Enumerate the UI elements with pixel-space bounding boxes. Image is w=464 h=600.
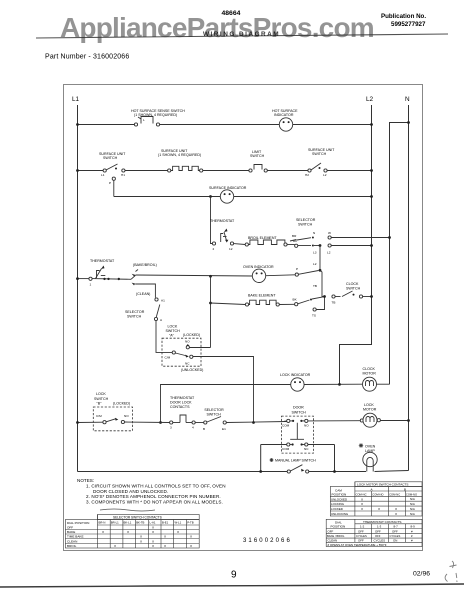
svg-text:TB: TB	[332, 301, 336, 305]
svg-text:BK-L1: BK-L1	[124, 521, 132, 525]
svg-text:A: A	[160, 318, 163, 322]
svg-text:"A": "A"	[169, 334, 175, 338]
switch hot surface sense switch	[134, 117, 159, 127]
svg-text:TS: TS	[312, 314, 316, 318]
svg-text:SWITCH: SWITCH	[94, 397, 109, 401]
wire row2	[78, 170, 372, 172]
svg-text:SELECTOR: SELECTOR	[125, 310, 145, 314]
relay lock switch A dashed box	[162, 338, 201, 366]
svg-text:A1: A1	[161, 299, 165, 303]
svg-text:CONTACTS: CONTACTS	[170, 405, 190, 409]
svg-text:NC: NC	[304, 447, 309, 451]
switch selector row L3-L1	[298, 244, 372, 247]
svg-text:# OPENS AT OVEN TEMPERATURE +: # OPENS AT OVEN TEMPERATURE + 550°F	[328, 543, 387, 547]
switch selector P contact	[295, 271, 318, 277]
junction L2 row1	[370, 123, 373, 126]
svg-text:(1 SHOWN, 4 REQUIRED): (1 SHOWN, 4 REQUIRED)	[158, 153, 201, 157]
svg-text:(1 SHOWN, 4 REQUIRED): (1 SHOWN, 4 REQUIRED)	[134, 113, 177, 117]
svg-text:X: X	[152, 540, 154, 544]
svg-text:OFF: OFF	[358, 529, 364, 533]
svg-text:4: 4	[192, 426, 194, 430]
wire row3 thermostat	[78, 275, 296, 280]
svg-text:BR-N: BR-N	[99, 521, 106, 525]
svg-text:12: 12	[229, 247, 233, 251]
svg-text:1-3: 1-3	[377, 525, 382, 529]
svg-text:A: A	[371, 487, 374, 491]
header underline rule	[36, 34, 448, 38]
svg-text:SWITCH: SWITCH	[292, 411, 307, 415]
svg-text:(BAKE/BROIL): (BAKE/BROIL)	[133, 263, 157, 267]
node L2 bus	[340, 105, 372, 385]
svg-text:L2: L2	[366, 96, 374, 103]
junction L2 end at clock motor wire	[338, 383, 341, 386]
svg-text:TB: TB	[313, 284, 317, 288]
svg-text:CLOCK: CLOCK	[346, 282, 359, 286]
svg-text:COM: COM	[282, 447, 290, 451]
svg-text:UNLOCKED: UNLOCKED	[331, 497, 347, 501]
svg-text:X: X	[127, 530, 129, 534]
wire surface indicator	[114, 196, 372, 198]
svg-text:COM: COM	[282, 424, 290, 428]
svg-text:X: X	[361, 497, 363, 501]
switch surface unit switch right	[308, 163, 327, 172]
svg-text:OFF: OFF	[67, 526, 73, 530]
svg-text:COM-NC: COM-NC	[356, 492, 367, 496]
junction L1 row1	[76, 123, 79, 126]
svg-text:THERMOSTAT: THERMOSTAT	[170, 396, 195, 400]
svg-text:1. CIRCUIT SHOWN WITH ALL CON: 1. CIRCUIT SHOWN WITH ALL CONTROLS SET T…	[86, 484, 226, 489]
wire lamp row bottom	[78, 471, 409, 472]
svg-text:MOTOR: MOTOR	[363, 372, 377, 376]
svg-text:BROIL: BROIL	[67, 544, 77, 548]
svg-text:BR: BR	[292, 234, 297, 238]
svg-text:5995277927: 5995277927	[391, 21, 426, 28]
junction node P tap	[209, 275, 212, 278]
svg-text:SWITCH: SWITCH	[298, 223, 313, 227]
svg-text:C/M: C/M	[165, 356, 171, 360]
svg-text:(LOCKED): (LOCKED)	[183, 333, 200, 337]
pencil scribbles bottom right	[445, 561, 457, 582]
svg-text:N: N	[313, 231, 315, 235]
svg-text:B: B	[203, 427, 205, 431]
lamp surface indicator	[220, 190, 233, 203]
junction lock wire to indicator branch	[159, 421, 162, 424]
svg-text:NO: NO	[304, 424, 309, 428]
vertical 210	[210, 277, 212, 348]
svg-text:3: 3	[170, 426, 172, 430]
svg-text:1-2: 1-2	[360, 525, 365, 529]
svg-text:(CLEAN): (CLEAN)	[136, 292, 150, 296]
svg-text:TIME BAKE: TIME BAKE	[67, 535, 84, 539]
svg-text:NO: NO	[124, 414, 129, 418]
svg-text:X: X	[140, 540, 142, 544]
lamp oven lamp	[363, 452, 377, 471]
junction L2 row2	[370, 169, 373, 172]
svg-text:DOOR LOCK: DOOR LOCK	[170, 401, 192, 405]
svg-text:N/A: N/A	[410, 507, 415, 511]
junction L2 broil row	[370, 244, 373, 247]
svg-text:3. COMPONENTS WITH * DO NOT A: 3. COMPONENTS WITH * DO NOT APPEAR ON AL…	[86, 499, 223, 504]
svg-text:N/A: N/A	[410, 502, 415, 506]
svg-text:X: X	[102, 530, 104, 534]
svg-text:L2: L2	[323, 173, 327, 177]
bottom page edge line	[0, 584, 464, 587]
svg-text:BR-L1: BR-L1	[111, 521, 119, 525]
junction L1 lock row	[76, 421, 79, 424]
junction L1 thermostat row	[76, 277, 79, 280]
terminal BK broil	[295, 244, 298, 247]
svg-text:P-TB: P-TB	[187, 521, 194, 525]
svg-text:BAKE ELEMENT: BAKE ELEMENT	[248, 294, 276, 298]
svg-text:H1: H1	[121, 173, 125, 177]
svg-text:ON: ON	[393, 539, 397, 543]
svg-text:MANUAL LAMP SWITCH: MANUAL LAMP SWITCH	[275, 459, 316, 463]
contact thermostat door lock contacts	[170, 415, 196, 424]
junction selector ladder top	[319, 244, 322, 247]
svg-text:BROIL ELEMENT: BROIL ELEMENT	[248, 236, 277, 240]
thermostat main	[89, 266, 120, 281]
junction L2 clock switch row	[370, 295, 373, 298]
svg-text:CYCLES: CYCLES	[390, 534, 401, 538]
svg-text:THERMOSTAT: THERMOSTAT	[210, 219, 235, 223]
svg-text:SURFACE INDICATOR: SURFACE INDICATOR	[209, 186, 247, 190]
svg-text:LOCKED: LOCKED	[331, 507, 343, 511]
junction selector W wire to N feeder	[388, 236, 391, 239]
thermostat upper	[211, 197, 234, 246]
lamp oven indicator	[252, 269, 265, 282]
svg-text:L1: L1	[101, 173, 105, 177]
svg-text:B-E1: B-E1	[162, 521, 169, 525]
svg-text:OFF: OFF	[375, 534, 381, 538]
svg-text:SWITCH: SWITCH	[312, 152, 327, 156]
svg-text:BAKE: BAKE	[67, 530, 75, 534]
svg-text:SWITCH: SWITCH	[127, 315, 142, 319]
svg-text:X: X	[164, 544, 166, 548]
svg-text:CLEAN: CLEAN	[67, 540, 77, 544]
svg-text:DOOR CLOSED AND UNLOCKED.: DOOR CLOSED AND UNLOCKED.	[93, 489, 168, 494]
svg-text:X: X	[190, 535, 192, 539]
svg-text:MOTOR: MOTOR	[363, 408, 377, 412]
svg-text:X: X	[177, 530, 179, 534]
svg-text:SWITCH: SWITCH	[207, 412, 222, 416]
svg-text:DOOR: DOOR	[293, 406, 304, 410]
svg-text:C/M: C/M	[96, 414, 102, 418]
svg-text:BK-TB: BK-TB	[136, 521, 144, 525]
lamp hot surface indicator	[279, 118, 292, 131]
junction lamp row right	[333, 470, 336, 473]
wire N feeder vertical 389	[390, 123, 409, 385]
svg-text:H2: H2	[305, 173, 309, 177]
svg-text:SWITCH: SWITCH	[346, 287, 361, 291]
svg-text:X: X	[395, 507, 397, 511]
svg-text:LOCK MOTOR SWITCH CONTACTS: LOCK MOTOR SWITCH CONTACTS	[357, 483, 408, 487]
svg-text:CLOCK: CLOCK	[363, 367, 376, 371]
svg-text:X: X	[361, 507, 363, 511]
svg-text:LOCK: LOCK	[364, 403, 374, 407]
svg-text:LOCK: LOCK	[168, 325, 178, 329]
junction N feeder	[407, 121, 410, 124]
svg-text:N/A: N/A	[410, 512, 415, 516]
svg-text:OFF: OFF	[328, 529, 334, 533]
svg-text:LAMP: LAMP	[365, 449, 375, 453]
element surface unit	[168, 166, 249, 172]
svg-text:W: W	[328, 231, 331, 235]
svg-text:316002066: 316002066	[243, 538, 292, 544]
svg-text:N: N	[405, 96, 410, 103]
element broil element	[234, 240, 295, 246]
svg-text:N/A: N/A	[410, 497, 415, 501]
junction lamp row left	[259, 470, 262, 473]
junction L1 row2	[76, 169, 79, 172]
svg-text:NC: NC	[185, 362, 190, 366]
svg-text:"B": "B"	[97, 402, 103, 406]
svg-text:SELECTOR: SELECTOR	[296, 218, 316, 222]
svg-text:9: 9	[231, 570, 237, 581]
junction N lock motor	[407, 419, 410, 422]
svg-text:NOTES:: NOTES:	[77, 478, 94, 483]
svg-text:L1: L1	[72, 96, 80, 103]
svg-text:(UNLOCKED): (UNLOCKED)	[181, 368, 203, 372]
svg-text:P: P	[109, 181, 111, 185]
svg-text:2. NO'S* DENOTES AMPHENOL CON: 2. NO'S* DENOTES AMPHENOL CONNECTOR PIN …	[86, 494, 221, 499]
svg-text:NO: NO	[185, 340, 190, 344]
svg-text:LOCK INDICATOR: LOCK INDICATOR	[280, 373, 311, 377]
selector ladder vertical	[313, 246, 325, 312]
switch limit switch	[249, 165, 267, 173]
svg-text:X: X	[190, 544, 192, 548]
svg-text:INDICATOR: INDICATOR	[274, 113, 294, 117]
motor lock motor	[360, 413, 408, 427]
svg-text:Publication No.: Publication No.	[381, 13, 426, 20]
switch manual lamp switch	[287, 465, 309, 473]
svg-text:X: X	[361, 502, 363, 506]
switch surface unit switch left	[103, 164, 125, 197]
wire row1	[78, 124, 372, 126]
svg-text:X: X	[378, 507, 380, 511]
svg-text:CYCLES: CYCLES	[356, 534, 367, 538]
svg-text:L: L	[143, 118, 145, 122]
svg-text:OFF: OFF	[392, 529, 398, 533]
svg-text:THERMOSTAT: THERMOSTAT	[90, 259, 115, 263]
svg-text:SELECTOR: SELECTOR	[204, 408, 224, 412]
svg-text:POSITION: POSITION	[332, 492, 347, 496]
svg-text:X: X	[164, 535, 166, 539]
svg-text:WIRING DIAGRAM: WIRING DIAGRAM	[203, 31, 280, 38]
svg-text:L2: L2	[313, 262, 317, 266]
svg-text:X: X	[152, 530, 154, 534]
svg-text:X: X	[152, 526, 154, 530]
svg-text:POSITION: POSITION	[331, 525, 346, 529]
svg-text:UNLOCKING: UNLOCKING	[331, 512, 349, 516]
junction ladder P row	[319, 269, 322, 272]
junction bake element tap	[209, 302, 212, 305]
junction L2 surface indicator wire	[370, 195, 373, 198]
svg-text:2: 2	[213, 247, 215, 251]
relay lock switch B dashed box	[93, 407, 132, 431]
svg-text:W-L1: W-L1	[175, 521, 182, 525]
svg-text:Part Number - 316002066: Part Number - 316002066	[45, 54, 129, 61]
svg-text:E1: E1	[222, 427, 226, 431]
svg-text:AppliancePartsPros.com: AppliancePartsPros.com	[60, 12, 374, 43]
svg-text:THERMOSTAT CONTACTS: THERMOSTAT CONTACTS	[363, 520, 401, 524]
svg-text:L3: L3	[313, 251, 317, 255]
svg-text:X: X	[395, 512, 397, 516]
svg-text:X: X	[140, 535, 142, 539]
svg-text:8-7: 8-7	[394, 525, 399, 529]
svg-text:SWITCH: SWITCH	[166, 329, 181, 333]
junction node T2 tap	[209, 195, 212, 198]
switch selector lock	[195, 417, 287, 425]
svg-text:SELECTOR SWITCH CONTACTS: SELECTOR SWITCH CONTACTS	[113, 516, 162, 520]
svg-text:1: 1	[90, 283, 92, 287]
node N bus	[408, 105, 410, 471]
lamp lock indicator	[291, 378, 304, 391]
svg-text:OVEN: OVEN	[365, 445, 376, 449]
motor clock motor	[363, 377, 377, 391]
svg-text:(LOCKED): (LOCKED)	[113, 402, 130, 406]
svg-text:COM-NO: COM-NO	[406, 492, 417, 496]
svg-text:BAKE / BROIL: BAKE / BROIL	[327, 534, 345, 538]
switch clock switch	[323, 291, 371, 298]
node L1 bus	[77, 105, 79, 472]
svg-text:SWITCH: SWITCH	[103, 156, 118, 160]
svg-text:8-9: 8-9	[411, 525, 416, 529]
svg-text:DIAL POSITION: DIAL POSITION	[67, 521, 89, 525]
svg-text:L-A1: L-A1	[150, 521, 156, 525]
svg-text:#: #	[411, 529, 413, 533]
svg-text:OVEN INDICATOR: OVEN INDICATOR	[243, 265, 274, 269]
svg-text:#: #	[411, 534, 413, 538]
svg-text:B: B	[404, 487, 406, 491]
border frame	[64, 85, 423, 551]
svg-text:SWITCH: SWITCH	[250, 154, 265, 158]
switch selector row N-W	[290, 236, 390, 241]
svg-text:OFF: OFF	[375, 529, 381, 533]
svg-text:X: X	[114, 544, 116, 548]
junction NC branch to lock row	[252, 421, 255, 424]
svg-text:X: X	[152, 544, 154, 548]
svg-text:COM-NC: COM-NC	[389, 492, 400, 496]
svg-text:02/96: 02/96	[413, 571, 430, 578]
switch door switch dashed box	[282, 416, 314, 453]
svg-text:LOCKING: LOCKING	[331, 502, 345, 506]
svg-text:P: P	[296, 267, 298, 271]
svg-text:COM-NO: COM-NO	[372, 492, 383, 496]
svg-text:L2: L2	[327, 251, 331, 255]
svg-text:LOCK: LOCK	[96, 392, 106, 396]
relay contacts bake relay	[131, 270, 155, 298]
svg-text:BK: BK	[293, 298, 298, 302]
